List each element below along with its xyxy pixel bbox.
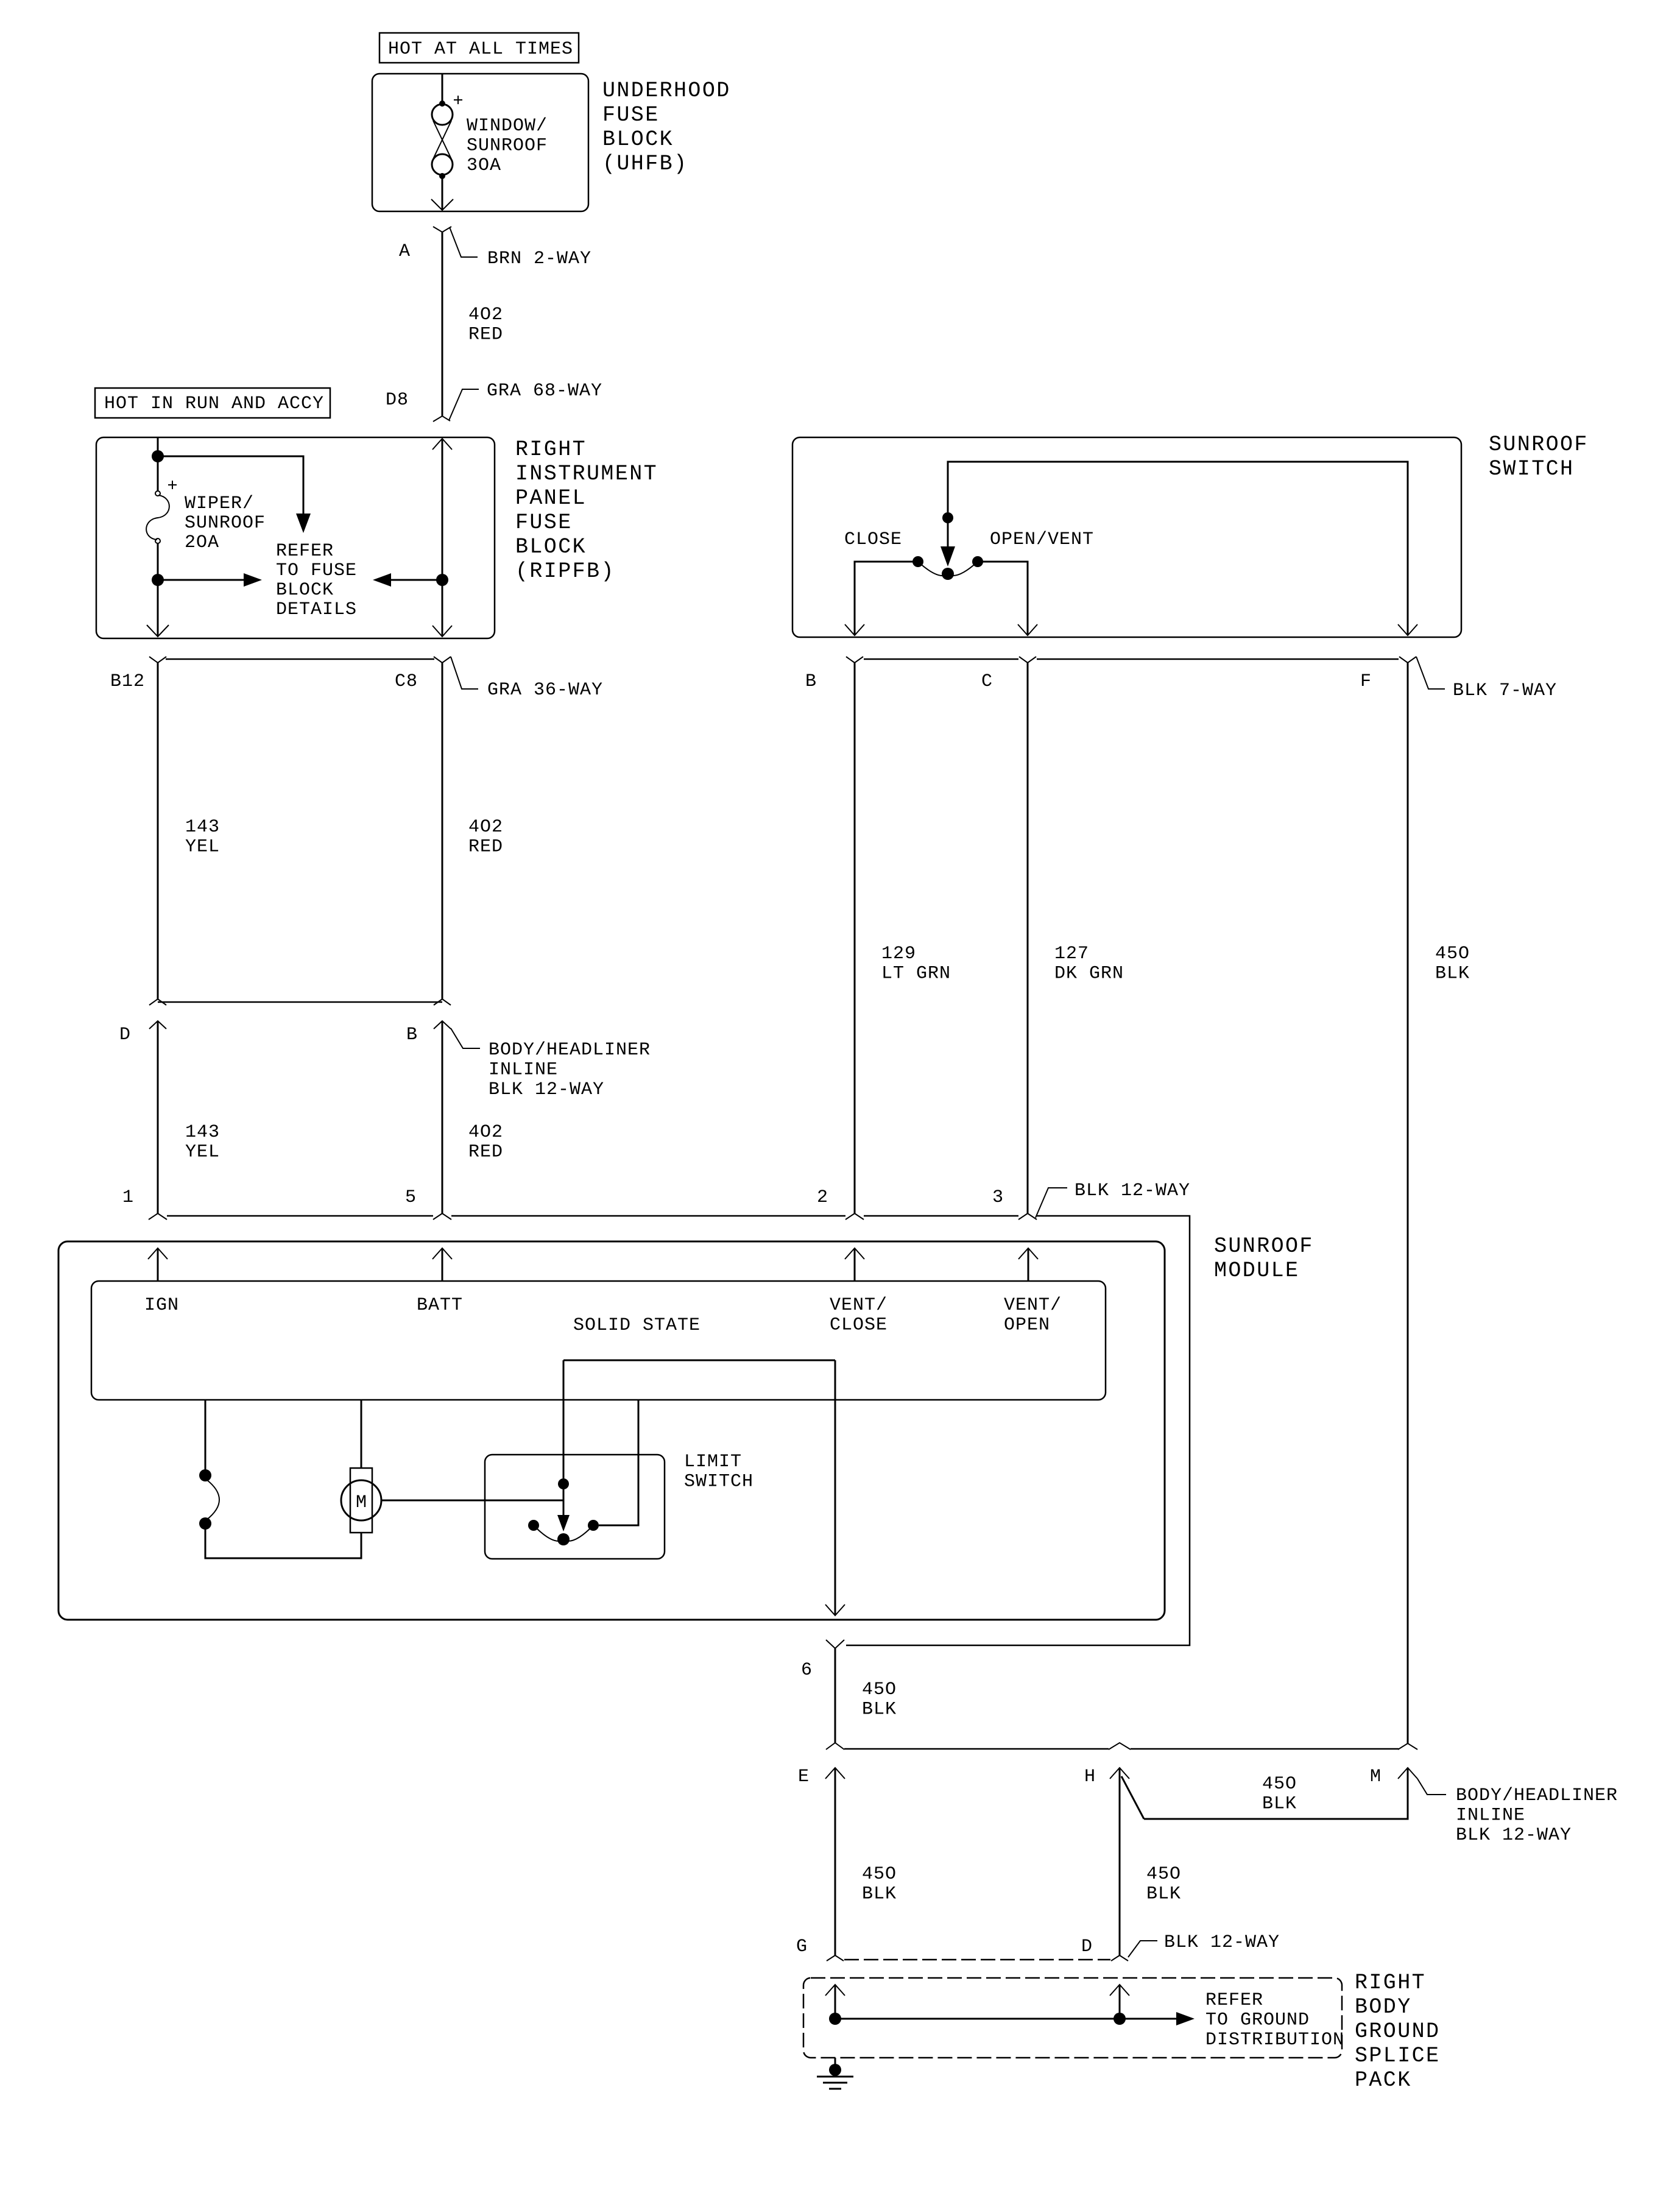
svg-text:45O: 45O xyxy=(1262,1774,1297,1795)
svg-text:VENT/: VENT/ xyxy=(830,1295,888,1316)
svg-text:143: 143 xyxy=(185,817,220,838)
svg-text:BLK: BLK xyxy=(1262,1794,1297,1815)
svg-text:BLK: BLK xyxy=(1146,1884,1181,1905)
svg-text:LT GRN: LT GRN xyxy=(881,964,951,984)
svg-text:SWITCH: SWITCH xyxy=(684,1472,754,1492)
svg-text:OPEN: OPEN xyxy=(1004,1315,1050,1336)
svg-text:SOLID STATE: SOLID STATE xyxy=(573,1315,701,1336)
svg-text:HOT IN RUN AND ACCY: HOT IN RUN AND ACCY xyxy=(104,394,324,414)
svg-text:DISTRIBUTION: DISTRIBUTION xyxy=(1205,2030,1344,2050)
svg-text:BODY: BODY xyxy=(1355,1995,1412,2019)
svg-text:INLINE: INLINE xyxy=(489,1060,558,1081)
svg-text:6: 6 xyxy=(801,1660,813,1681)
svg-text:G: G xyxy=(796,1936,808,1957)
svg-text:FUSE: FUSE xyxy=(515,510,573,535)
svg-text:A: A xyxy=(399,241,411,262)
svg-text:REFER: REFER xyxy=(276,541,334,562)
svg-text:TO GROUND: TO GROUND xyxy=(1205,2010,1310,2031)
svg-text:YEL: YEL xyxy=(185,837,220,858)
svg-text:3: 3 xyxy=(992,1187,1004,1208)
svg-text:E: E xyxy=(798,1767,810,1787)
svg-text:BLOCK: BLOCK xyxy=(276,580,334,601)
svg-text:DETAILS: DETAILS xyxy=(276,599,357,620)
svg-text:M: M xyxy=(356,1492,367,1513)
svg-text:BLK: BLK xyxy=(862,1884,897,1905)
svg-text:B12: B12 xyxy=(110,671,145,692)
svg-text:SUNROOF: SUNROOF xyxy=(1214,1234,1314,1259)
svg-text:SWITCH: SWITCH xyxy=(1489,457,1574,481)
svg-text:BLK: BLK xyxy=(1435,964,1470,984)
svg-text:BATT: BATT xyxy=(417,1295,463,1316)
svg-text:RED: RED xyxy=(468,325,503,345)
svg-text:M: M xyxy=(1370,1767,1382,1787)
svg-text:D: D xyxy=(119,1025,131,1045)
svg-text:SPLICE: SPLICE xyxy=(1355,2044,1440,2068)
svg-text:BODY/HEADLINER: BODY/HEADLINER xyxy=(489,1040,651,1061)
svg-text:BODY/HEADLINER: BODY/HEADLINER xyxy=(1456,1785,1618,1806)
svg-text:PACK: PACK xyxy=(1355,2068,1412,2092)
svg-text:H: H xyxy=(1084,1767,1096,1787)
svg-text:B: B xyxy=(805,671,817,692)
svg-text:4O2: 4O2 xyxy=(468,1122,503,1143)
svg-text:2: 2 xyxy=(817,1187,828,1208)
svg-text:D: D xyxy=(1081,1936,1093,1957)
svg-text:B: B xyxy=(406,1025,418,1045)
svg-text:CLOSE: CLOSE xyxy=(830,1315,888,1336)
svg-text:C: C xyxy=(981,671,993,692)
svg-text:C8: C8 xyxy=(395,671,418,692)
svg-text:FUSE: FUSE xyxy=(602,103,660,127)
svg-text:BLK 7-WAY: BLK 7-WAY xyxy=(1453,680,1557,701)
svg-text:RIGHT: RIGHT xyxy=(515,437,587,462)
svg-text:1: 1 xyxy=(122,1187,134,1208)
svg-text:SUNROOF: SUNROOF xyxy=(1489,432,1589,457)
svg-text:(RIPFB): (RIPFB) xyxy=(515,559,615,584)
svg-text:45O: 45O xyxy=(1435,944,1470,964)
svg-text:INLINE: INLINE xyxy=(1456,1806,1525,1826)
svg-text:HOT AT ALL TIMES: HOT AT ALL TIMES xyxy=(388,39,573,60)
svg-text:RED: RED xyxy=(468,837,503,858)
svg-text:INSTRUMENT: INSTRUMENT xyxy=(515,462,658,486)
svg-text:WIPER/: WIPER/ xyxy=(185,493,254,514)
svg-text:BLK 12-WAY: BLK 12-WAY xyxy=(1456,1825,1572,1846)
svg-text:LIMIT: LIMIT xyxy=(684,1452,742,1472)
svg-text:BLK: BLK xyxy=(862,1700,897,1720)
svg-text:REFER: REFER xyxy=(1205,1990,1263,2011)
svg-text:YEL: YEL xyxy=(185,1142,220,1163)
svg-text:TO FUSE: TO FUSE xyxy=(276,560,357,581)
svg-text:45O: 45O xyxy=(862,1679,897,1700)
svg-text:SUNROOF: SUNROOF xyxy=(467,136,548,157)
svg-text:45O: 45O xyxy=(862,1864,897,1885)
svg-text:127: 127 xyxy=(1054,944,1089,964)
svg-text:5: 5 xyxy=(405,1187,417,1208)
svg-text:RED: RED xyxy=(468,1142,503,1163)
svg-text:4O2: 4O2 xyxy=(468,305,503,325)
svg-text:RIGHT: RIGHT xyxy=(1355,1971,1426,1995)
svg-text:BLK 12-WAY: BLK 12-WAY xyxy=(1164,1932,1280,1953)
svg-text:3OA: 3OA xyxy=(467,155,501,176)
svg-text:WINDOW/: WINDOW/ xyxy=(467,116,548,136)
svg-text:PANEL: PANEL xyxy=(515,486,587,510)
svg-text:IGN: IGN xyxy=(144,1295,179,1316)
svg-text:VENT/: VENT/ xyxy=(1004,1295,1062,1316)
svg-text:129: 129 xyxy=(881,944,916,964)
svg-text:D8: D8 xyxy=(386,390,409,411)
svg-text:MODULE: MODULE xyxy=(1214,1259,1299,1283)
svg-text:SUNROOF: SUNROOF xyxy=(185,513,266,534)
svg-text:4O2: 4O2 xyxy=(468,817,503,838)
svg-text:DK GRN: DK GRN xyxy=(1054,964,1124,984)
svg-text:GRA 68-WAY: GRA 68-WAY xyxy=(487,381,602,401)
svg-text:BLOCK: BLOCK xyxy=(602,127,674,152)
svg-text:BRN 2-WAY: BRN 2-WAY xyxy=(487,249,591,269)
svg-text:BLK 12-WAY: BLK 12-WAY xyxy=(1075,1181,1190,1201)
svg-text:CLOSE: CLOSE xyxy=(844,529,902,550)
svg-text:(UHFB): (UHFB) xyxy=(602,152,688,176)
svg-text:45O: 45O xyxy=(1146,1864,1181,1885)
svg-text:GRA 36-WAY: GRA 36-WAY xyxy=(487,680,603,701)
svg-text:2OA: 2OA xyxy=(185,532,219,553)
svg-text:F: F xyxy=(1360,671,1372,692)
svg-text:143: 143 xyxy=(185,1122,220,1143)
svg-text:GROUND: GROUND xyxy=(1355,2019,1440,2044)
svg-text:BLOCK: BLOCK xyxy=(515,535,587,559)
svg-text:BLK 12-WAY: BLK 12-WAY xyxy=(489,1079,604,1100)
svg-text:UNDERHOOD: UNDERHOOD xyxy=(602,79,731,103)
svg-text:OPEN/VENT: OPEN/VENT xyxy=(990,529,1094,550)
